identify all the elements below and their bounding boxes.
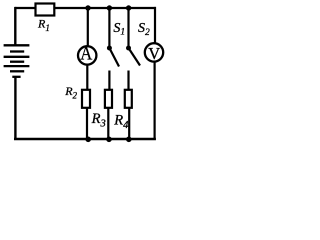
wire: resistor R2 to bottom bus (86, 109, 88, 140)
label S2 (138, 21, 150, 38)
resistor R4 (125, 90, 132, 108)
wire: bottom bus from bottom-left corner to bottom-right corner (14, 138, 156, 141)
wire: S2 branch, top bus down to switch pivot (127, 8, 129, 47)
node: bottom junction of R3 branch (106, 137, 112, 143)
wire: left side, battery bottom down to bottom-left corner (14, 77, 16, 140)
svg-text:S2: S2 (138, 21, 150, 38)
switch S1 (open) (107, 46, 119, 91)
node: bottom junction of R4 branch (126, 137, 132, 143)
battery B1 (multi-cell) (4, 45, 30, 77)
svg-text:A: A (80, 44, 93, 64)
wire: resistor R4 to bottom bus (128, 109, 130, 140)
wire: top bus from top-left corner to top-right corner (15, 7, 156, 9)
resistor R1 (36, 4, 55, 16)
svg-text:R1: R1 (37, 17, 50, 33)
ammeter A (78, 44, 96, 64)
node: top junction of S2 branch (126, 5, 131, 10)
voltmeter V (145, 43, 163, 63)
resistor R3 (105, 90, 112, 108)
svg-text:R3: R3 (91, 111, 106, 130)
wire: left side, top-left corner down to battery top (14, 7, 16, 45)
node: top junction of S1 branch (107, 5, 112, 10)
switch S2 (open) (126, 46, 140, 91)
svg-text:R4: R4 (113, 113, 129, 132)
wire: ammeter to resistor R2 (86, 65, 88, 90)
svg-text:R2: R2 (64, 84, 77, 100)
resistor R2 (82, 90, 90, 108)
label R2 (64, 84, 77, 100)
label R1 (37, 17, 50, 33)
svg-text:V: V (148, 44, 160, 63)
node: top junction of ammeter branch (85, 5, 90, 10)
wire: resistor R3 to bottom bus (107, 109, 109, 140)
label S1 (113, 21, 125, 38)
svg-text:S1: S1 (113, 21, 125, 38)
wire: S1 branch, top bus down to switch pivot (108, 8, 110, 47)
wire: right side, top-right corner down to voltmeter (154, 7, 156, 43)
node: bottom junction of R2 branch (85, 137, 91, 143)
wire: ammeter branch, top bus down to ammeter (87, 8, 89, 46)
label R3 (91, 111, 106, 130)
wire: right side, voltmeter down to bottom-right corner (154, 62, 156, 140)
label R4 (113, 113, 129, 132)
